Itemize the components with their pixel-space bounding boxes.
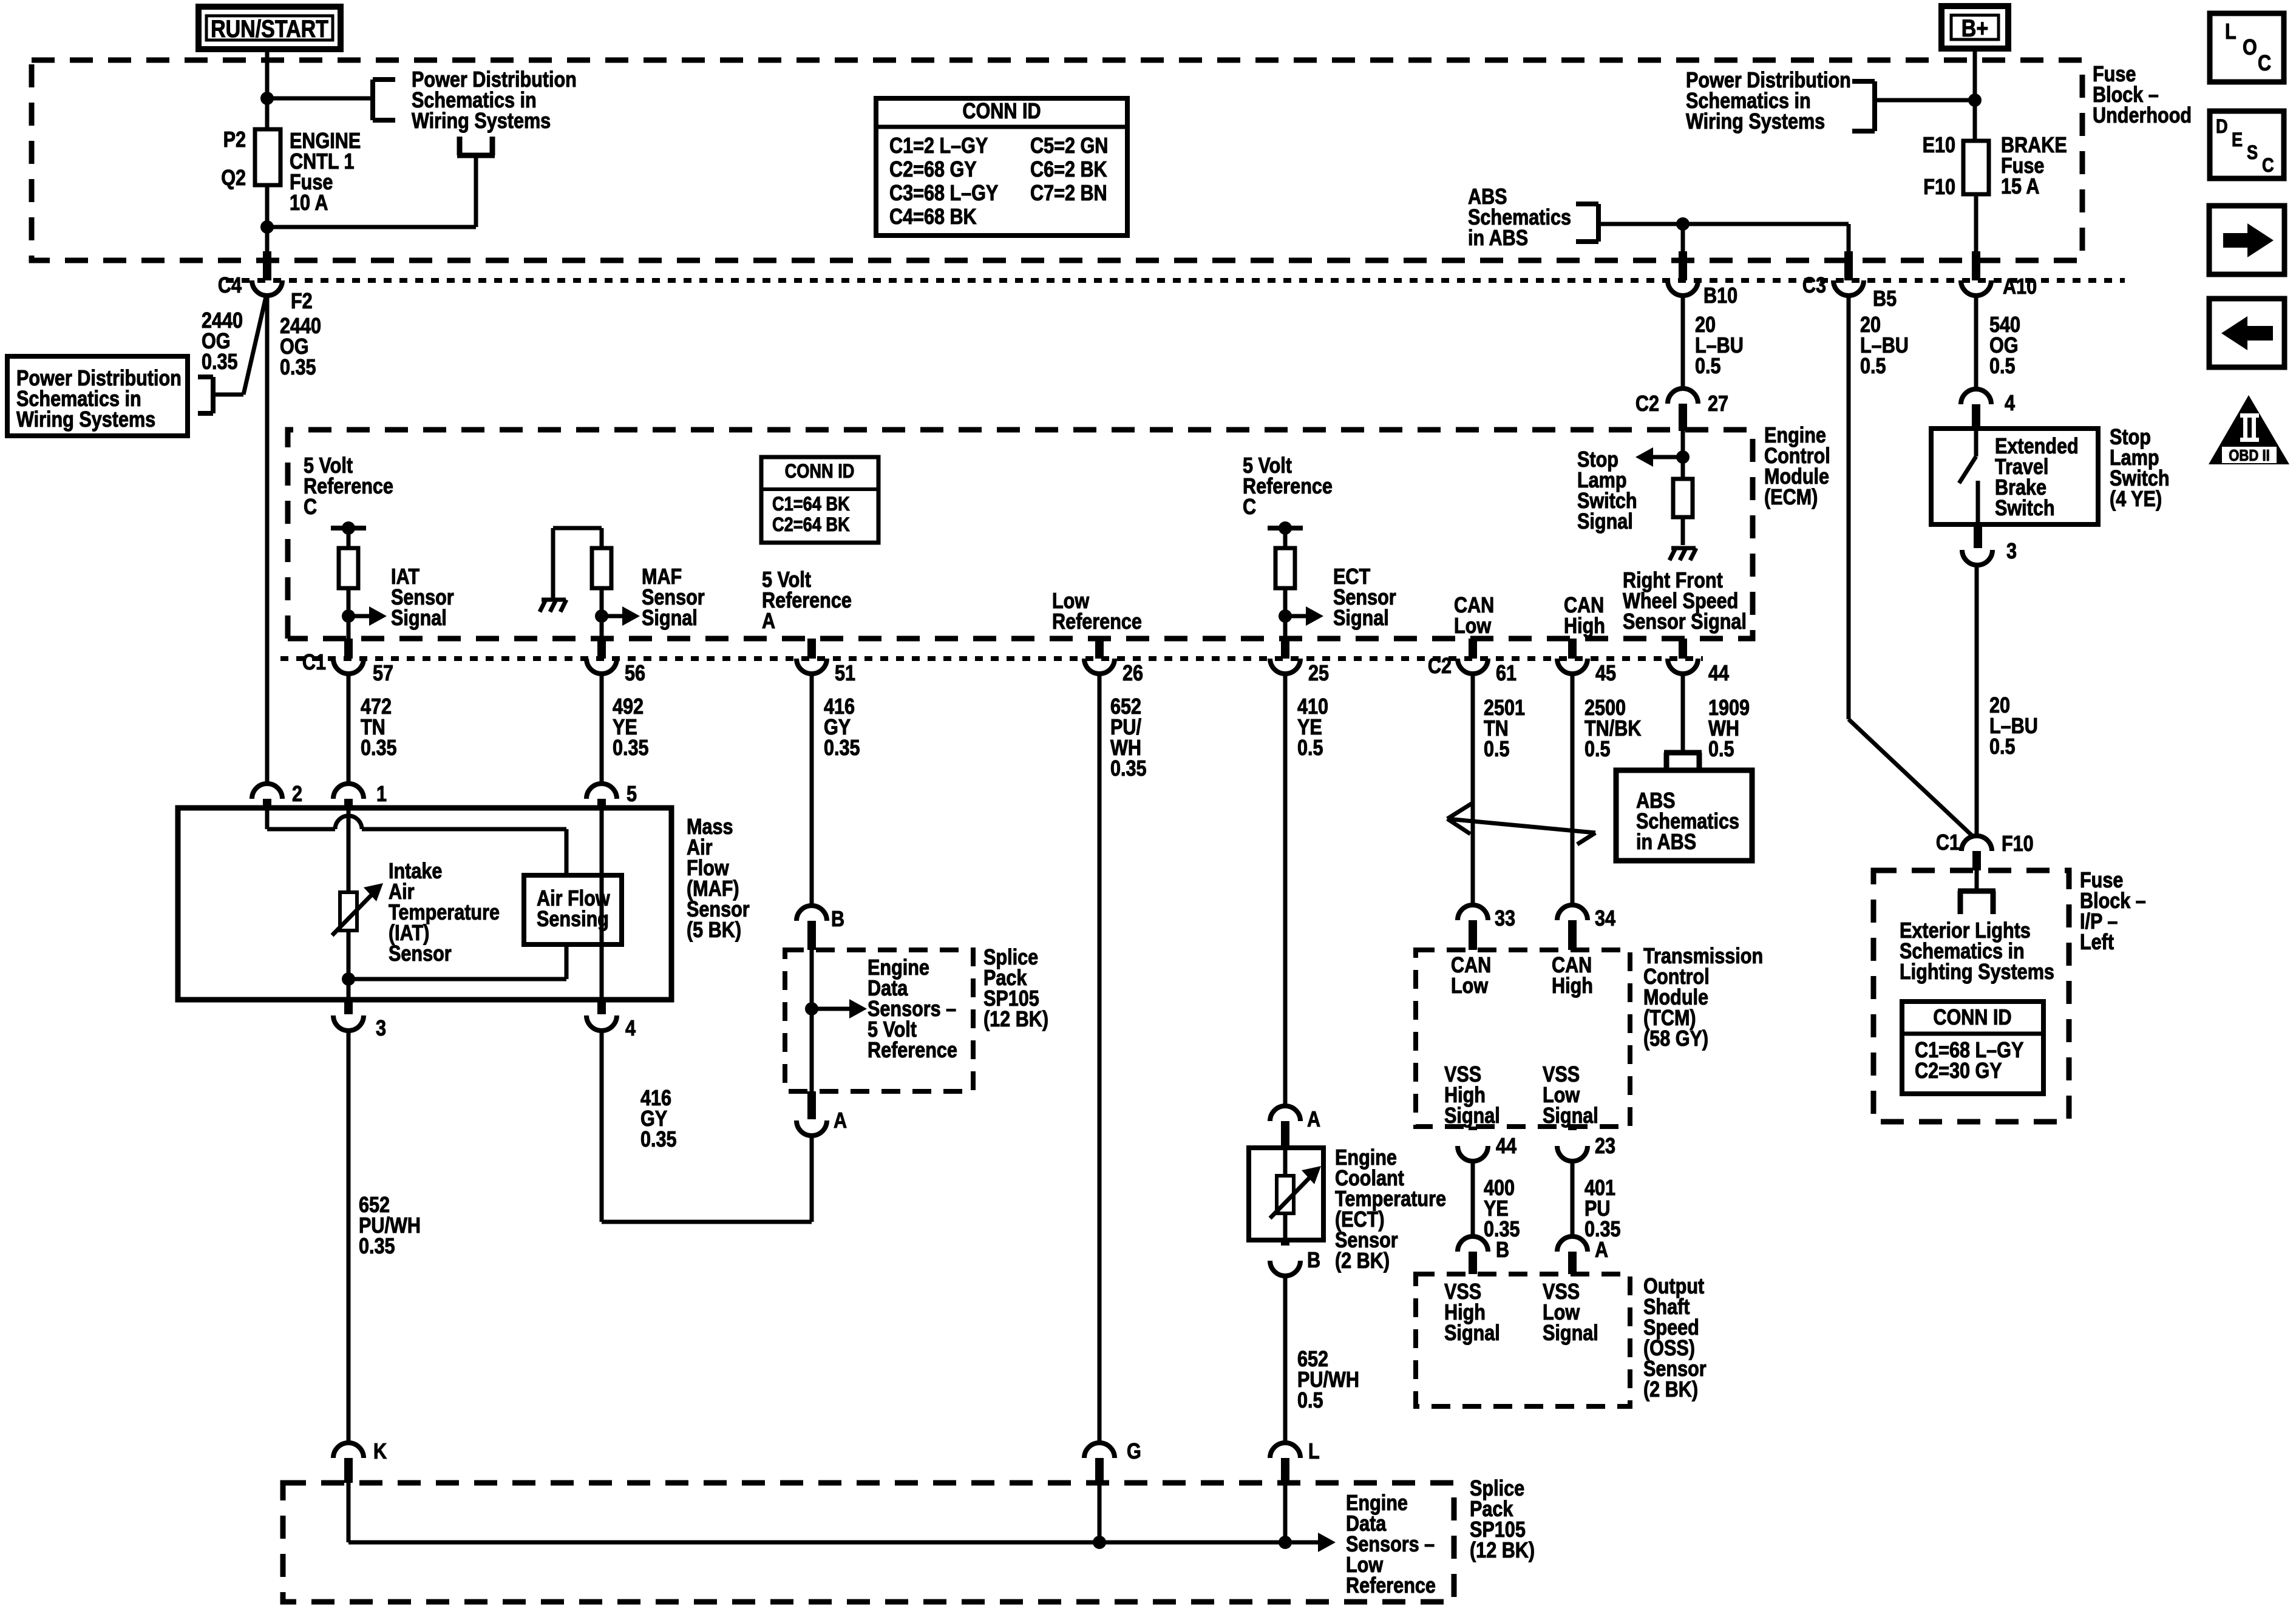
mass air flow MAF sensor box (178, 808, 671, 1000)
wire junction to fork stem (267, 155, 476, 227)
thermistor IAT sensor element (332, 808, 383, 935)
svg-text:Signal: Signal (1543, 1321, 1598, 1346)
pin label 3 (2006, 540, 2017, 564)
pin label L (1308, 1440, 1320, 1464)
pin label 5 (627, 782, 637, 807)
wire 2501 TN pin61 to TCM 33 (1471, 674, 1475, 906)
label 5 Volt Reference C (IAT) (304, 454, 393, 520)
wire IAT element to pin 3 (347, 931, 351, 1000)
svg-text:0.35: 0.35 (361, 736, 397, 761)
svg-text:0.35: 0.35 (280, 356, 316, 380)
label CAN High (ECM) (1564, 594, 1605, 639)
connector arc pin 2 (MAF box) (252, 784, 282, 808)
wire label 416 GY 0.35 (MAF pin4) (640, 1086, 677, 1152)
label Power Distribution Schematics in Wiring Systems (top left) (412, 68, 577, 134)
label ECT Sensor Signal (1333, 565, 1396, 631)
svg-text:Signal: Signal (391, 606, 447, 631)
connector C1/F10 arc (1961, 836, 1992, 870)
svg-text:C: C (304, 495, 317, 520)
dotted connector line row 2 (ECM) (280, 656, 1703, 661)
arrow ECT sensor signal (1285, 606, 1323, 626)
arrow stop lamp switch signal (1635, 447, 1683, 467)
svg-text:High: High (1564, 614, 1605, 639)
icon LOC button (2210, 13, 2284, 82)
svg-text:C4=68 BK: C4=68 BK (889, 205, 977, 229)
wire resistor to pin 56 (600, 588, 604, 639)
icon DESC button (2210, 111, 2284, 178)
connector arc pin 1 (MAF box) (333, 784, 364, 808)
CONN ID table (fuse block underhood) (876, 98, 1127, 236)
svg-text:High: High (1552, 974, 1593, 998)
svg-text:C6=2 BK: C6=2 BK (1030, 158, 1107, 182)
svg-text:(12 BK): (12 BK) (1470, 1539, 1535, 1563)
connector C2 pin 44 stub (1679, 639, 1687, 659)
wire label 20 L-BU 0.5 (lower) (1989, 694, 2038, 759)
label 5 Volt Reference A (762, 568, 852, 634)
svg-text:RUN/START: RUN/START (211, 15, 328, 42)
svg-text:A: A (834, 1109, 847, 1133)
svg-text:61: 61 (1496, 662, 1517, 686)
svg-text:in ABS: in ABS (1468, 226, 1528, 251)
svg-text:S: S (2247, 142, 2258, 164)
connector C2 pin 45 cup (1557, 659, 1588, 674)
svg-text:C7=2 BN: C7=2 BN (1030, 181, 1107, 206)
svg-text:C: C (2262, 155, 2274, 177)
label Engine Data Sensors - 5 Volt Reference (868, 956, 957, 1063)
label Output Shaft Speed (OSS) Sensor (2 BK) (1643, 1275, 1707, 1402)
svg-text:3: 3 (376, 1017, 386, 1041)
svg-text:(2 BK): (2 BK) (1335, 1249, 1390, 1273)
wire resistor to pin 25 (1283, 588, 1288, 639)
label Stop Lamp Switch Signal (ECM) (1577, 448, 1637, 534)
wire B+ down to BRAKE fuse (1973, 49, 1977, 141)
pin label 23 (TCM) (1595, 1134, 1615, 1159)
svg-text:B10: B10 (1703, 284, 1737, 308)
wire pin5 to pin4 inside MAF (600, 808, 604, 1000)
svg-text:4: 4 (625, 1017, 636, 1041)
svg-text:57: 57 (373, 662, 393, 686)
pin label 56 (625, 662, 645, 686)
wire 20 L-BU switch pin3 down to C1/F10 (1975, 565, 1979, 836)
pin label 57 (373, 662, 393, 686)
pin label C4 (218, 274, 242, 298)
pin label B (ECT) (1307, 1249, 1320, 1273)
svg-text:0.35: 0.35 (1110, 757, 1147, 781)
wire label 492 YE 0.35 (613, 695, 649, 761)
pin label 45 (1595, 662, 1616, 686)
wire label 410 YE 0.5 (1297, 695, 1328, 761)
connector 4 arc (stop lamp switch) (1961, 389, 1991, 429)
pin label E10 (1923, 134, 1955, 158)
wire 2440 OG from F2 down to MAF pin 2 (265, 296, 270, 784)
svg-text:CONN ID: CONN ID (1933, 1006, 2011, 1030)
svg-text:(12 BK): (12 BK) (983, 1008, 1048, 1032)
connector 34 arc (TCM) (1557, 905, 1588, 950)
connector arc pin 5 (MAF box) (586, 784, 617, 808)
wire 652 PU/WH MAF pin3 down to splice K (347, 1031, 351, 1443)
svg-text:27: 27 (1708, 392, 1728, 416)
connector B10 stub (1679, 251, 1687, 280)
junction dot B10 tap (1676, 217, 1690, 231)
connector 44 cup (TCM bottom) (1458, 1127, 1488, 1161)
wire label 540 OG 0.5 (1989, 313, 2020, 379)
label Low Reference (1052, 589, 1142, 634)
connector A arc (splice pack 5V) (796, 1091, 827, 1136)
junction dot G (1093, 1536, 1106, 1549)
wire air flow sensing to IAT junction (348, 944, 566, 979)
svg-text:Signal: Signal (642, 606, 698, 631)
wire junction to Power Distribution bracket (267, 97, 373, 101)
label IAT Sensor Signal (391, 565, 454, 631)
bracket to Power Distribution Schematics (top left) (373, 80, 395, 120)
svg-text:Wiring Systems: Wiring Systems (412, 109, 551, 134)
svg-text:C1: C1 (1936, 831, 1960, 855)
label CAN High (TCM) (1552, 954, 1593, 998)
svg-text:Wiring Systems: Wiring Systems (1686, 110, 1825, 134)
wire 410 YE pin25 to ECT A (1283, 674, 1288, 1107)
svg-text:Reference: Reference (762, 589, 852, 613)
label VSS High Signal (OSS) (1444, 1280, 1500, 1346)
svg-text:Signal: Signal (1577, 510, 1633, 534)
svg-text:Switch: Switch (1995, 497, 2055, 521)
svg-text:C2=64 BK: C2=64 BK (772, 514, 850, 536)
junction dot on RUN/START feed (260, 92, 274, 105)
svg-text:Lighting Systems: Lighting Systems (1900, 960, 2054, 985)
icon back arrow button (2209, 299, 2284, 367)
air flow sensing box (524, 875, 622, 944)
svg-text:1: 1 (376, 782, 387, 807)
label Splice Pack SP105 (12 BK) (5V) (983, 946, 1048, 1032)
wire resistor to pin 57 (347, 588, 351, 639)
svg-text:Reference: Reference (1052, 610, 1142, 634)
svg-text:3: 3 (2006, 540, 2017, 564)
svg-text:Underhood: Underhood (2093, 104, 2192, 128)
fuse BRAKE 15A (E10/F10) (1963, 141, 1989, 194)
connector C1 pin 57 cup (333, 659, 364, 674)
svg-text:25: 25 (1308, 662, 1329, 686)
wire junction down to B10 (1681, 224, 1685, 255)
svg-text:56: 56 (625, 662, 645, 686)
resistor R in ECM (IAT pull-up) (339, 531, 358, 588)
wire label 652 PU/WH 0.35 (pin26) (1110, 695, 1147, 781)
svg-text:2: 2 (292, 782, 302, 807)
pin label A10 (2003, 275, 2037, 299)
svg-text:0.5: 0.5 (1297, 736, 1323, 761)
connector label C1 (ECM) (302, 651, 326, 675)
svg-text:0.35: 0.35 (824, 736, 860, 761)
extended travel brake switch SW1 (1931, 429, 2098, 524)
wire C2-27 into ECM (1681, 431, 1685, 479)
wire ground hook to MAF resistor (553, 528, 602, 548)
wire 400 YE TCM44 to OSS B (1471, 1161, 1475, 1237)
svg-text:Signal: Signal (1543, 1104, 1598, 1128)
CAN bus continuation arrow (crossing CAN wires) (1447, 802, 1595, 844)
svg-text:(ECM): (ECM) (1764, 486, 1818, 510)
connector B10 cup (1668, 280, 1698, 296)
transmission control module TCM dashed box (1416, 950, 1630, 1127)
connector 33 arc (TCM) (1458, 905, 1488, 950)
fuse ENGINE CNTL 1 10A (P2/Q2) (255, 129, 280, 185)
connector C2 pin 44 cup (1668, 659, 1698, 674)
label 5 Volt Reference C (ECT) (1243, 454, 1333, 520)
svg-text:C3=68 L–GY: C3=68 L–GY (889, 181, 998, 206)
svg-text:C: C (2258, 52, 2271, 76)
value label ENGINE CNTL 1 Fuse 10 A (290, 129, 361, 215)
fork symbol inside fuse block IP (1958, 870, 1995, 914)
connector C1 pin 26 cup (1084, 659, 1115, 674)
pin label F2 (291, 290, 313, 314)
connector 23 cup (TCM bottom) (1557, 1127, 1588, 1161)
connector C1 pin 57 stub (344, 639, 353, 659)
svg-text:45: 45 (1595, 662, 1616, 686)
wire 652 PU/WH ECT B down to splice L (1283, 1276, 1288, 1443)
wire to Power Distribution bracket (top right) (1875, 98, 1975, 103)
label Mass Air Flow (MAF) Sensor (5 BK) (687, 815, 750, 943)
wire label 2440 OG 0.35 (right) (280, 314, 321, 380)
pin label A (splice) (834, 1109, 847, 1133)
connector C1 pin 25 stub (1281, 639, 1289, 659)
wire label 2500 TN/BK 0.5 (1584, 696, 1641, 762)
resistor R in ECM (MAF) (592, 548, 611, 588)
junction dot stop lamp switch signal (1676, 450, 1690, 464)
wire 492 YE pin56 to MAF pin5 (600, 674, 604, 784)
svg-text:0.35: 0.35 (613, 736, 649, 761)
svg-text:Reference: Reference (1346, 1574, 1436, 1598)
engine coolant temperature ECT sensor box (1249, 1148, 1323, 1240)
label box ABS Schematics in ABS (bottom) (1616, 770, 1752, 861)
wire label 2440 OG 0.35 (left) (202, 309, 243, 375)
label Power Distribution Schematics in Wiring Systems (top right) (1686, 69, 1851, 134)
wire label 1909 WH 0.5 (1708, 696, 1750, 762)
svg-text:F10: F10 (2002, 832, 2034, 856)
bracket from ABS Schematics label (1576, 204, 1598, 242)
svg-text:C4: C4 (218, 274, 242, 298)
pin label B10 (1703, 284, 1737, 308)
label Fuse Block - I/P - Left (2080, 869, 2146, 955)
connector C2 pin 45 stub (1568, 639, 1577, 659)
wire 2500 TN/BK pin45 to TCM 34 (1571, 674, 1575, 906)
svg-text:Reference: Reference (1243, 475, 1333, 499)
svg-text:C: C (1243, 495, 1256, 520)
svg-text:33: 33 (1495, 907, 1515, 931)
svg-text:B+: B+ (1961, 14, 1988, 41)
svg-text:D: D (2216, 116, 2228, 138)
pin label 25 (1308, 662, 1329, 686)
svg-text:CONN ID: CONN ID (962, 100, 1041, 124)
pin label 2 (292, 782, 302, 807)
svg-text:Signal: Signal (1444, 1104, 1500, 1128)
wire label 652 PU/WH 0.35 (359, 1193, 421, 1259)
pin label C2 (ECM top) (1635, 392, 1659, 416)
wire 20 L-BU from B5 down (long) (1847, 296, 1851, 719)
pin label 26 (1123, 662, 1143, 686)
label MAF Sensor Signal (642, 565, 705, 631)
label Intake Air Temperature (IAT) Sensor (389, 859, 500, 966)
wire label 472 TN 0.35 (361, 695, 397, 761)
connector C1 pin 26 stub (1095, 639, 1104, 659)
CONN ID table (ECM) (761, 457, 878, 543)
output shaft speed OSS sensor dashed box (1416, 1274, 1630, 1406)
svg-text:(5 BK): (5 BK) (687, 918, 741, 943)
svg-text:OBD II: OBD II (2229, 447, 2269, 464)
label VSS Low Signal (TCM) (1543, 1063, 1598, 1128)
svg-text:0.5: 0.5 (1860, 354, 1886, 379)
connector pin 4 cup (below MAF) (586, 1000, 617, 1031)
connector C1 pin 51 cup (796, 659, 827, 674)
svg-text:G: G (1127, 1440, 1141, 1464)
svg-text:23: 23 (1595, 1134, 1615, 1159)
splice pack SP105 5V dashed box (785, 950, 973, 1091)
connector L arc (1270, 1443, 1300, 1483)
wire 20 L-BU from B10 down to C2-27 (1681, 296, 1685, 390)
node B+ battery feed (1941, 6, 2008, 49)
pin label 27 (1708, 392, 1728, 416)
wire 2440 OG from C4 to power distribution bracket (diagonal) (214, 297, 266, 395)
svg-text:0.35: 0.35 (359, 1235, 395, 1259)
junction dot B+ feed (1968, 93, 1982, 107)
fork symbol to ABS schematics (1664, 753, 1702, 771)
resistor R in ECM (stop lamp) (1673, 479, 1693, 517)
connector B arc (splice pack 5V) (796, 906, 827, 950)
pin label 4 (MAF) (625, 1017, 636, 1041)
pin label F10 (fuse block IP) (2002, 832, 2034, 856)
wire pin2 to air flow sensing (with hop over IAT wire) (267, 808, 566, 875)
connector C4/F2 cup (252, 280, 282, 296)
wire G to splice bus (1098, 1483, 1102, 1542)
label Transmission Control Module (TCM) (58 GY) (1643, 944, 1763, 1051)
svg-text:26: 26 (1123, 662, 1143, 686)
svg-text:Sensor Signal: Sensor Signal (1623, 610, 1747, 634)
bracket to Power Distribution Schematics box (left) (198, 377, 213, 413)
svg-text:K: K (373, 1440, 387, 1464)
svg-text:E: E (2232, 129, 2243, 151)
connector label C2 (ECM bottom) (1428, 654, 1452, 679)
5V reference bus bar (IAT) (331, 521, 366, 535)
svg-text:15 A: 15 A (2001, 175, 2039, 199)
pin label C1 (fuse block IP) (1936, 831, 1960, 855)
connector A arc (ECT sensor) (1270, 1106, 1300, 1148)
svg-text:0.5: 0.5 (1584, 737, 1611, 762)
arrow engine data sensors 5V reference (812, 999, 867, 1019)
5V reference bus bar (ECT) (1268, 521, 1303, 535)
svg-text:C1=2 L–GY: C1=2 L–GY (889, 134, 988, 158)
wire label 416 GY 0.35 (824, 695, 860, 761)
svg-text:Reference: Reference (304, 475, 393, 499)
arrow IAT sensor signal (348, 606, 387, 626)
label Engine Control Module (ECM) (1764, 424, 1830, 510)
svg-text:C5=2 GN: C5=2 GN (1030, 134, 1108, 158)
pin label 4 (2005, 392, 2015, 416)
pin label B5 (1873, 287, 1897, 311)
svg-text:(58 GY): (58 GY) (1643, 1027, 1708, 1051)
svg-text:(4 YE): (4 YE) (2110, 487, 2162, 512)
thermistor ECT sensor element (1270, 1166, 1321, 1240)
svg-text:5: 5 (627, 782, 637, 807)
svg-text:F10: F10 (1923, 175, 1955, 200)
svg-text:Q2: Q2 (221, 166, 246, 191)
svg-text:A: A (1595, 1238, 1608, 1263)
ground symbol in ECM (stop lamp) (1669, 548, 1696, 560)
connector C4/F2 male stub (263, 251, 271, 280)
arrow engine data sensors low reference (1305, 1533, 1336, 1552)
svg-text:A10: A10 (2003, 275, 2037, 299)
svg-text:in ABS: in ABS (1636, 830, 1696, 855)
svg-text:B: B (1496, 1238, 1509, 1263)
connector A10 cup (1961, 280, 1991, 296)
connector 3 arc (stop lamp switch) (1962, 524, 1992, 565)
connector C1 pin 56 stub (597, 639, 606, 659)
label Power Distribution Schematics in Wiring Systems (boxed left) (7, 356, 188, 436)
connector C1 pin 51 stub (807, 639, 816, 659)
connector G arc (1084, 1443, 1115, 1483)
ground symbol in ECM (MAF) (540, 528, 566, 612)
svg-text:B5: B5 (1873, 287, 1897, 311)
svg-text:C3: C3 (1802, 274, 1826, 298)
svg-text:L: L (1308, 1440, 1320, 1464)
arrow MAF sensor signal (602, 606, 640, 626)
svg-text:0.5: 0.5 (1989, 735, 2016, 759)
svg-text:F2: F2 (291, 290, 313, 314)
svg-text:C2: C2 (1635, 392, 1659, 416)
svg-text:51: 51 (835, 662, 855, 686)
svg-text:0.35: 0.35 (202, 350, 238, 375)
wire label 652 PU/WH 0.5 (1297, 1347, 1359, 1413)
wire fuse output down through fuse block (265, 185, 270, 255)
junction dot splice 5V (805, 1002, 818, 1015)
wire label 2501 TN 0.5 (1484, 696, 1525, 762)
label VSS Low Signal (OSS) (1543, 1280, 1598, 1346)
svg-text:44: 44 (1708, 662, 1729, 686)
wire 416 GY pin51 to splice B (810, 674, 814, 906)
junction dot MAF sensor signal (595, 609, 608, 623)
connector C3/B5 stub (1844, 251, 1853, 280)
pin label B (splice) (831, 907, 844, 932)
wire diagonal B5 to C1/F10 (1849, 719, 1974, 838)
pin label Q2 (221, 166, 246, 191)
wire splice 5V internal (B to A) (810, 950, 814, 1091)
icon forward arrow button (2209, 206, 2284, 274)
svg-text:B: B (1307, 1249, 1320, 1273)
wire 652 PU/WH pin26 down to splice G (1098, 674, 1102, 1443)
pin label 33 (1495, 907, 1515, 931)
label VSS High Signal (TCM) (1444, 1063, 1500, 1128)
connector C1 pin 56 cup (586, 659, 617, 674)
pin label 34 (1595, 907, 1615, 931)
svg-text:Reference: Reference (868, 1039, 957, 1063)
dotted connector line row 1 (226, 278, 2125, 283)
connector pin 3 cup (below MAF) (333, 1000, 364, 1031)
svg-text:0.5: 0.5 (1297, 1389, 1323, 1413)
label Fuse Block - Underhood (2093, 63, 2192, 128)
svg-text:Sensing: Sensing (537, 907, 609, 932)
pin label 61 (1496, 662, 1517, 686)
svg-text:Sensor: Sensor (389, 942, 452, 966)
pin label G (1127, 1440, 1141, 1464)
label CAN Low (ECM) (1454, 594, 1494, 639)
pin label A (OSS) (1595, 1238, 1608, 1263)
pin label 44 (TCM) (1496, 1134, 1517, 1159)
wire 416 GY MAF pin4 to splice A leg (602, 1031, 812, 1222)
wire BRAKE fuse down to A10 (1974, 194, 1978, 255)
pin label F10 (1923, 175, 1955, 200)
connector C3/B5 cup (1833, 280, 1864, 296)
pin label A (ECT) (1307, 1108, 1320, 1132)
splice pack SP105 low reference dashed box (283, 1483, 1454, 1602)
svg-text:Low: Low (1451, 974, 1489, 998)
connector C2 pin 61 cup (1458, 659, 1488, 674)
pin label K (373, 1440, 387, 1464)
label Splice Pack SP105 (12 BK) (low ref) (1470, 1477, 1535, 1563)
